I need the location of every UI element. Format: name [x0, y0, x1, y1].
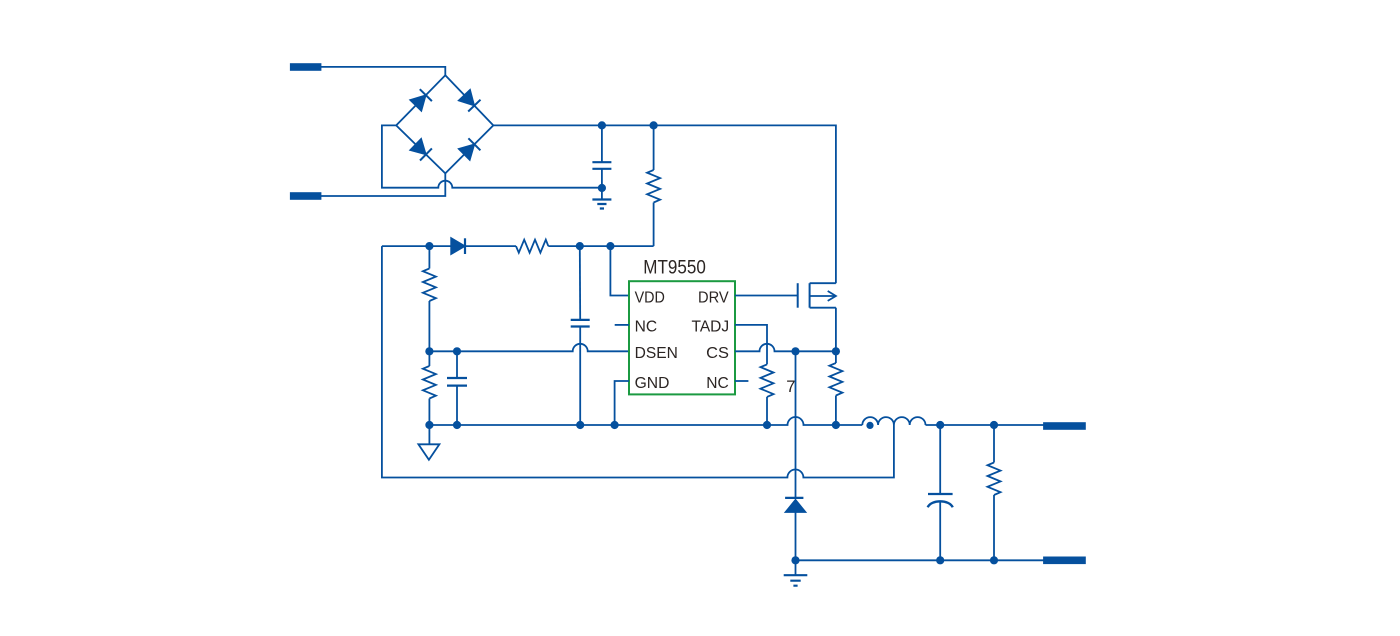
svg-text:NC: NC — [635, 319, 658, 336]
svg-text:CS: CS — [706, 345, 729, 362]
node junction VDD feed — [606, 242, 614, 250]
node junction bus left end — [425, 421, 433, 429]
terminal output + — [1043, 422, 1086, 430]
terminal output - — [1043, 557, 1086, 565]
resistor R6 — [829, 351, 842, 425]
node junction CS / sense — [791, 347, 799, 355]
terminal AC input 1 — [290, 63, 322, 71]
diode D1 (bridge top-left) — [410, 89, 432, 111]
svg-text:GND: GND — [635, 375, 670, 392]
wire L1 to output top — [926, 424, 1044, 426]
diode D5 — [451, 238, 465, 254]
wire left rail top (y=246) — [382, 245, 451, 247]
resistor R5 — [761, 364, 774, 425]
terminal AC input 2 — [290, 192, 322, 200]
node junction C2 top — [453, 347, 461, 355]
diode D3 (bridge bottom-left) — [410, 139, 432, 161]
wire TADJ down — [735, 325, 767, 365]
capacitor C2 — [447, 351, 467, 425]
wire ground bus (hop over sense line) — [429, 417, 862, 425]
ground GND1 (earth) — [592, 188, 611, 209]
capacitor C1 — [592, 125, 611, 188]
resistor R7 — [988, 425, 1001, 560]
node junction R5 bus — [763, 421, 771, 429]
node junction left rail / R3 — [425, 242, 433, 250]
resistor R2 — [516, 240, 548, 253]
node junction C2 bottom — [453, 421, 461, 429]
transistor Q1 (MOSFET) — [798, 283, 836, 351]
wire AC1 to bridge top — [321, 67, 445, 75]
resistor R4 — [423, 351, 436, 425]
wire D5 to R2 — [464, 245, 516, 247]
wire sense line down (CS junction to D6, through hops) — [795, 351, 797, 498]
svg-text:VDD: VDD — [635, 289, 665, 306]
svg-text:NC: NC — [706, 375, 729, 392]
node junction C3 bottom — [576, 421, 584, 429]
wire output bottom bus — [796, 559, 1044, 561]
pin stub NC left — [615, 324, 629, 326]
svg-text:DSEN: DSEN — [635, 345, 678, 362]
node junction C3 top — [576, 242, 584, 250]
IC U1 MT9550 box — [629, 281, 735, 394]
ground GND2 (earth) — [784, 560, 808, 585]
svg-text:TADJ: TADJ — [692, 319, 730, 336]
node junction R6 bus — [832, 421, 840, 429]
node junction C1 top — [598, 121, 606, 129]
capacitor C3 — [571, 246, 590, 425]
resistor R1 — [647, 125, 660, 246]
inductor L1 (tapped) — [862, 417, 925, 425]
capacitor C4 (polarized) — [928, 425, 953, 560]
node junction R7 bottom — [990, 556, 998, 564]
wire DSEN line (hop over C3) — [429, 344, 629, 352]
node junction C4 top — [936, 421, 944, 429]
pin stub NC right — [735, 380, 748, 382]
wire bridge left vertex to ground rail (with hop over bottom vertex wire) — [382, 125, 602, 187]
node junction R7 top — [990, 421, 998, 429]
diode D2 (bridge top-right) — [459, 90, 481, 112]
node phase dot L1 — [866, 422, 873, 429]
svg-text:MT9550: MT9550 — [643, 257, 706, 279]
diode D4 (bridge bottom-right) — [459, 138, 481, 160]
bridge rectifier BR1 outline — [396, 75, 493, 173]
wire DRV to gate — [735, 295, 798, 297]
wire bridge right vertex to drain top rail — [493, 125, 836, 283]
svg-text:DRV: DRV — [698, 289, 729, 306]
ground GND3 (open arrow) — [418, 425, 439, 460]
wire GND pin to bus — [615, 381, 629, 425]
svg-text:7: 7 — [786, 378, 795, 396]
node junction GND bus — [611, 421, 619, 429]
wire tap line (left rail bottom, hop over sense) — [382, 246, 894, 477]
node junction R1 top — [650, 121, 658, 129]
resistor R3 — [423, 246, 436, 351]
node junction D6 bottom — [791, 556, 799, 564]
node junction CS / source — [832, 347, 840, 355]
diode D6 — [785, 498, 805, 560]
wire R2 to R1 bottom — [548, 245, 653, 247]
wire AC2 to bridge bottom — [321, 173, 445, 196]
wire VDD feed to pin VDD — [610, 246, 629, 295]
node junction DSEN left — [425, 347, 433, 355]
node junction C1 bottom — [598, 184, 606, 192]
wire CS line (hop over TADJ) — [735, 344, 836, 352]
node junction C4 bottom — [936, 556, 944, 564]
